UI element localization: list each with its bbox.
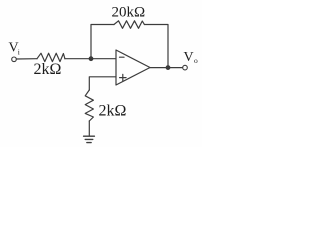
- output terminal Vo: [183, 65, 188, 70]
- wire feedback left vertical: [91, 25, 114, 59]
- wire R1 to op-amp inverting input: [65, 58, 116, 60]
- node junction at inverting input: [89, 56, 94, 61]
- svg-text:o: o: [194, 56, 198, 65]
- wire noninverting input: [89, 77, 116, 90]
- resistor R1 2k ohm (series input): [37, 53, 65, 61]
- node junction at output: [166, 65, 171, 70]
- ground: [84, 135, 95, 137]
- svg-text:2kΩ: 2kΩ: [99, 103, 127, 120]
- resistor R2 20k ohm (feedback): [114, 21, 144, 29]
- resistor R3 2k ohm (to ground): [85, 90, 93, 121]
- op-amp minus sign: [120, 56, 125, 58]
- wire R3 to ground: [88, 121, 90, 136]
- svg-text:i: i: [18, 48, 20, 57]
- wire feedback right vertical: [144, 25, 168, 68]
- wire input to R1: [16, 58, 37, 60]
- svg-text:20kΩ: 20kΩ: [112, 4, 146, 20]
- svg-text:V: V: [184, 50, 194, 65]
- op-amp U1: [116, 50, 150, 85]
- op-amp plus sign: [120, 77, 126, 79]
- input terminal Vi: [12, 57, 17, 62]
- wire op-amp output: [150, 67, 183, 69]
- svg-text:2kΩ: 2kΩ: [34, 61, 62, 78]
